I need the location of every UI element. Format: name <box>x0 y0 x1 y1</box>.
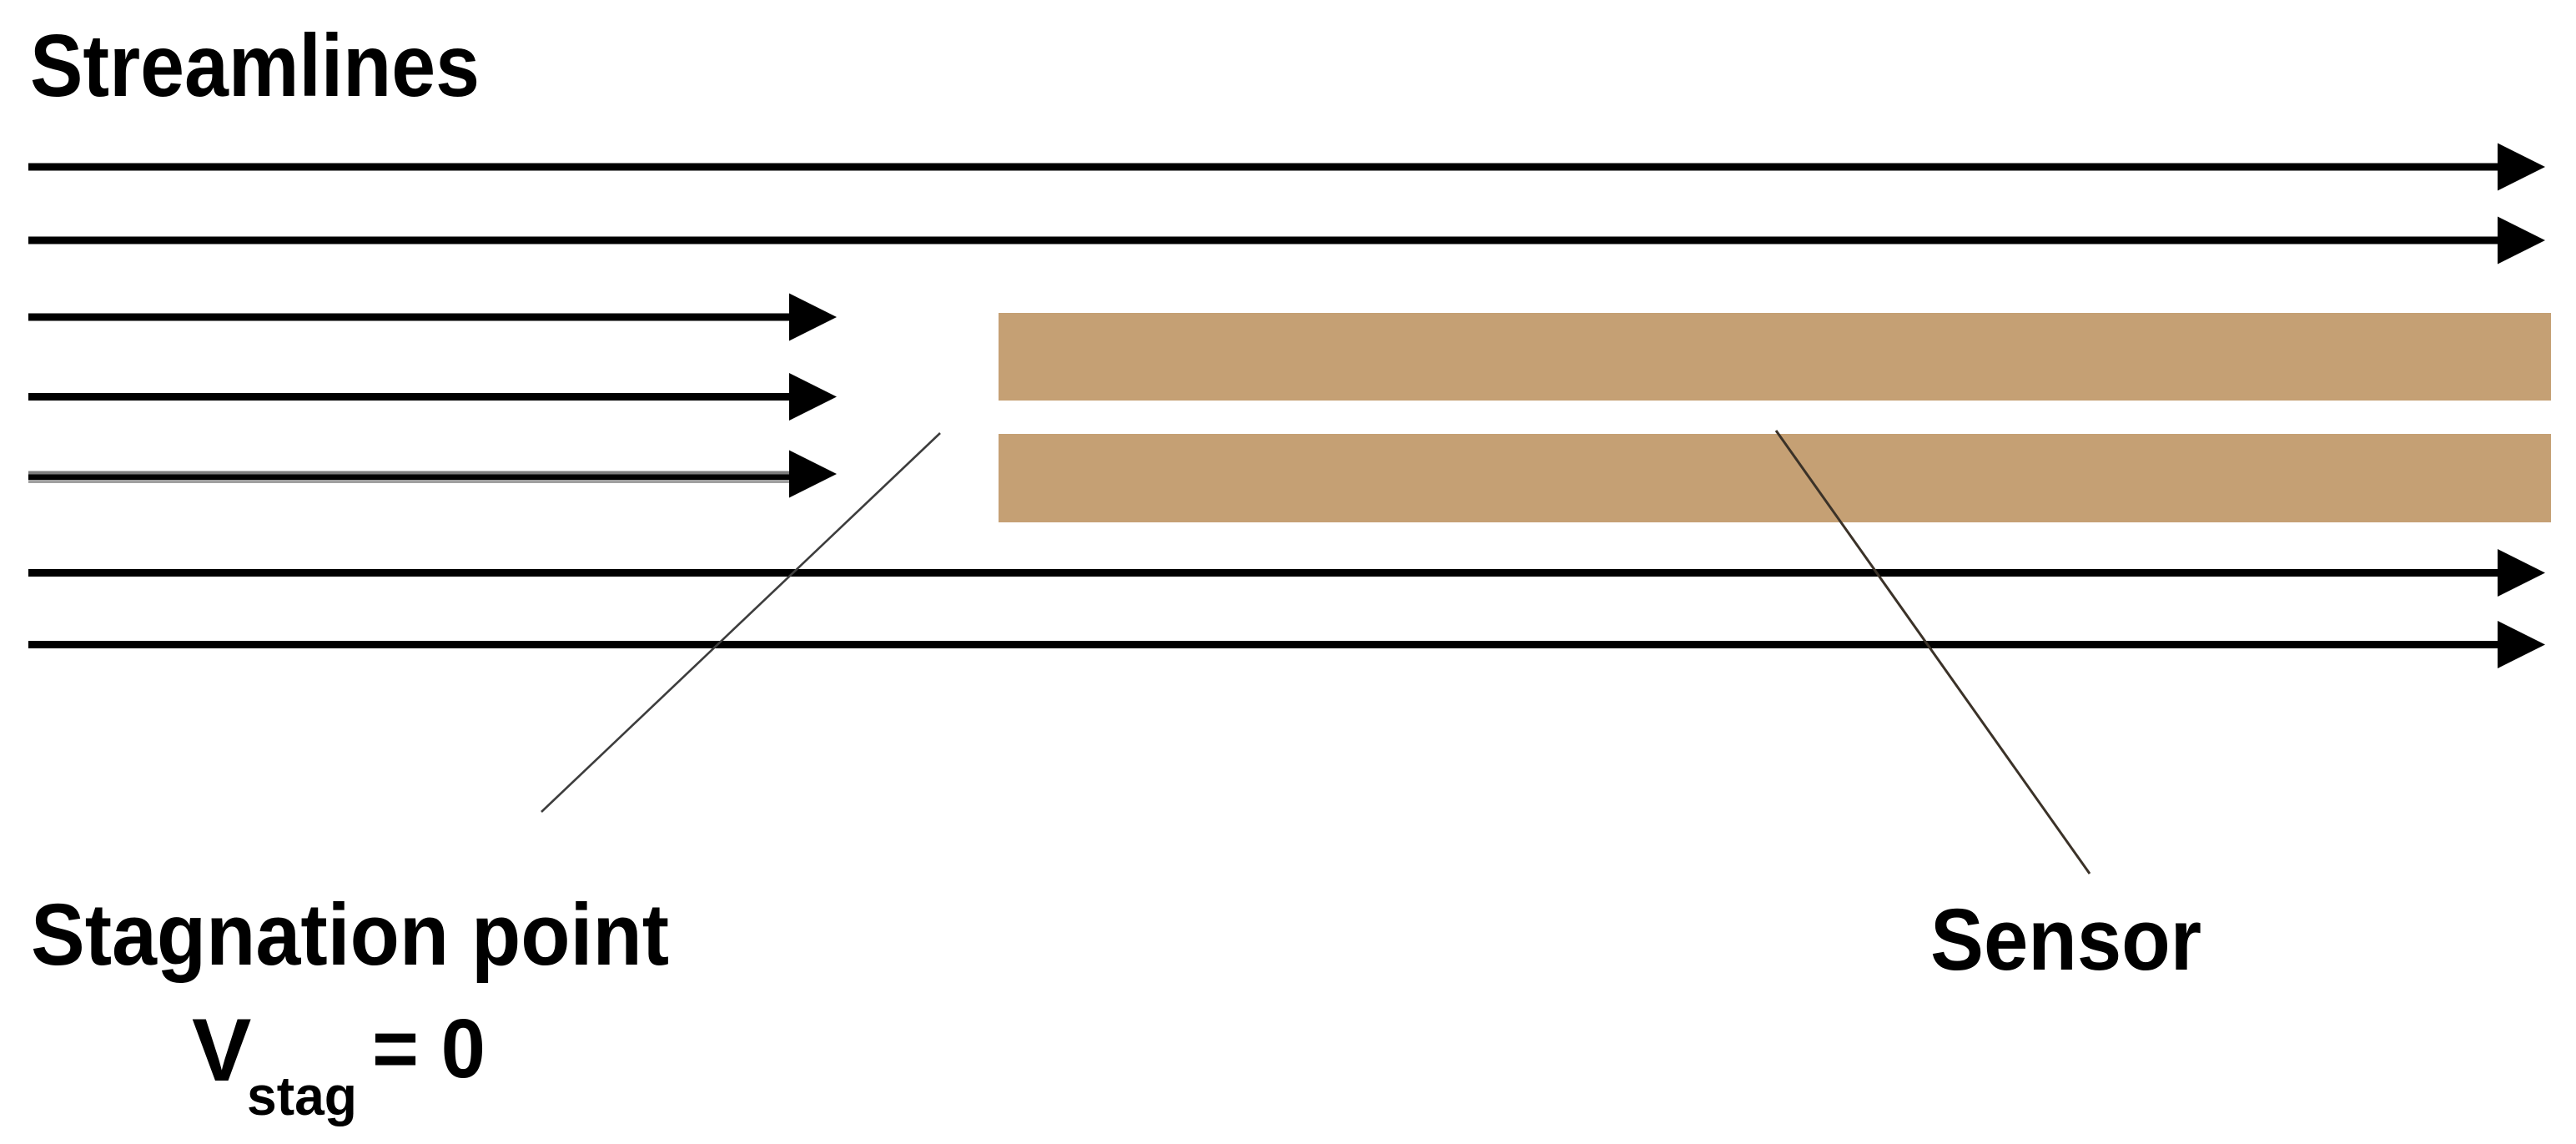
svg-text:stag: stag <box>247 1065 357 1126</box>
streamline arrow 1 (long, top) <box>28 144 2545 191</box>
svg-text:Sensor: Sensor <box>1930 891 2201 989</box>
svg-text:Stagnation point: Stagnation point <box>31 886 669 984</box>
streamline arrow 6 (long) <box>28 549 2545 597</box>
stagnation point leader line <box>541 433 940 812</box>
sensor leader line <box>1776 431 2090 874</box>
streamline arrow 5 (short, with gray fringe) <box>28 451 837 498</box>
sensor plate upper bar <box>999 313 2551 401</box>
streamline arrow 4 (short) <box>28 373 837 421</box>
svg-text:Streamlines: Streamlines <box>30 17 480 115</box>
svg-text:V: V <box>192 1000 251 1100</box>
streamline arrow 7 (long, bottom) <box>28 621 2545 668</box>
svg-text:= 0: = 0 <box>372 1002 486 1096</box>
streamline arrow 3 (short) <box>28 294 837 341</box>
sensor plate lower bar <box>999 434 2551 522</box>
streamline arrow 2 (long) <box>28 217 2545 265</box>
